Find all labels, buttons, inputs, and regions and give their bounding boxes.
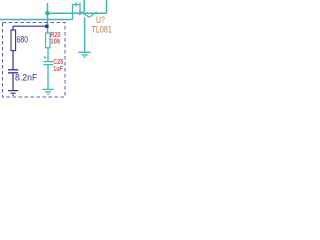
wire: C25 bottom to ground bbox=[47, 65, 49, 90]
wire: R1 bottom to C1 bbox=[12, 51, 14, 70]
node A junction dot (feedback tap) bbox=[45, 11, 49, 15]
wire: selected net from R1 top to node B bbox=[13, 25, 46, 27]
capacitor C25 bottom plate bbox=[43, 64, 53, 66]
ground GND1 (op-amp supply) bbox=[79, 52, 91, 57]
node B junction dot (R top node, selected) bbox=[45, 25, 48, 28]
op-amp U1 plus marker bbox=[75, 2, 77, 6]
wire: R1 top stub bbox=[12, 26, 14, 30]
ground GND3 (C25) bbox=[43, 89, 54, 94]
resistor R1 body bbox=[11, 30, 16, 51]
wire: R20 bottom to C25 bbox=[47, 48, 49, 62]
wire: V- pin down to ground bbox=[84, 18, 86, 53]
svg-text:10k: 10k bbox=[50, 37, 61, 46]
resistor R20 body bbox=[46, 33, 50, 48]
wire: vertical net at x47 bbox=[47, 3, 49, 33]
svg-text:680: 680 bbox=[17, 35, 29, 46]
op-amp U1 body edge upper-left bbox=[79, 11, 84, 15]
svg-text:TL081: TL081 bbox=[92, 24, 112, 35]
op-amp U1 left edge bbox=[79, 3, 81, 16]
capacitor C25 top plate bbox=[43, 61, 53, 63]
capacitor C25 polarity plus bbox=[43, 56, 46, 59]
op-amp U1 body edge lower-left bbox=[79, 11, 89, 17]
wire: rail bend up to op-amp plus input bbox=[73, 5, 81, 20]
wire: long horizontal net to op-amp inverting input and output bbox=[48, 12, 107, 14]
capacitor C1 bottom plate bbox=[8, 72, 18, 74]
op-amp U1 V+ pin stem bbox=[83, 0, 85, 12]
op-amp U1 body edge lower-right bbox=[89, 12, 97, 17]
selection box (dashed) bbox=[3, 23, 66, 98]
capacitor C1 top plate bbox=[8, 69, 18, 71]
svg-text:8.2nF: 8.2nF bbox=[15, 72, 37, 83]
wire: output rising at right bbox=[106, 0, 108, 13]
wire: input rail top bbox=[0, 19, 73, 21]
ground GND2 (selected) bbox=[8, 91, 18, 96]
wire: C1 bottom to ground bbox=[12, 73, 14, 91]
svg-text:1uF: 1uF bbox=[53, 64, 63, 73]
